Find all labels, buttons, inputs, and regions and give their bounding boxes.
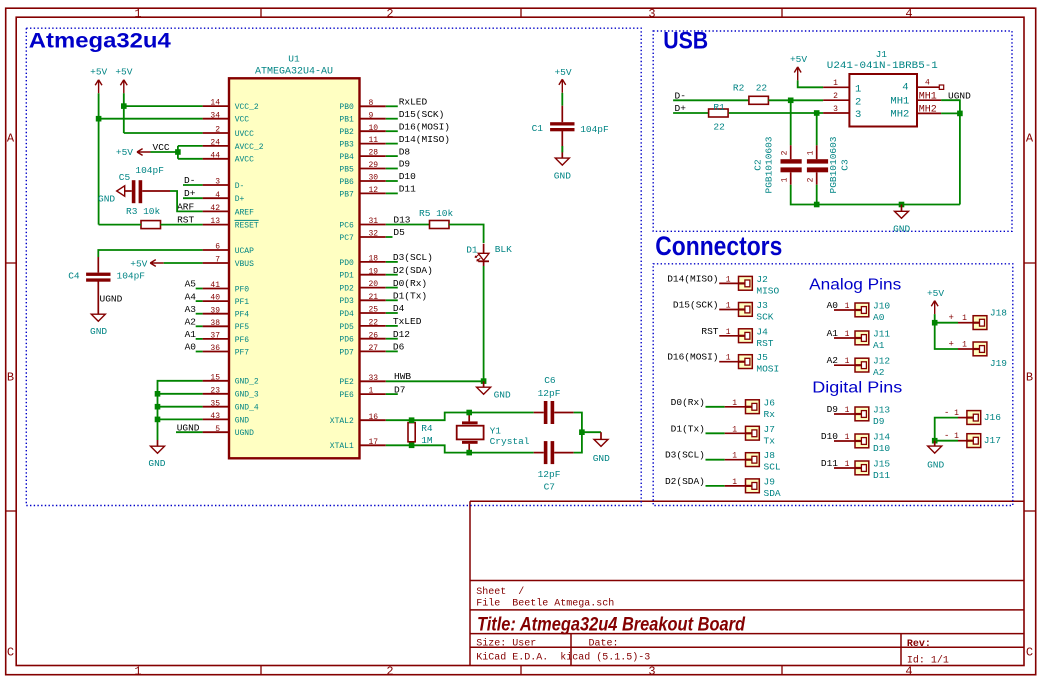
svg-text:23: 23: [210, 386, 220, 395]
svg-text:4: 4: [905, 665, 912, 679]
svg-text:4: 4: [902, 82, 908, 94]
svg-text:11: 11: [369, 136, 379, 145]
svg-text:GND: GND: [893, 223, 910, 234]
USB section dashed box: [653, 31, 1012, 231]
svg-text:-: -: [944, 431, 949, 441]
svg-text:A2: A2: [873, 367, 885, 378]
junction: [175, 149, 181, 155]
svg-text:GND_2: GND_2: [235, 378, 259, 387]
svg-text:GND: GND: [494, 390, 511, 401]
svg-text:3: 3: [833, 105, 838, 114]
U1 pin 40 (PF1) left stub: [203, 300, 229, 302]
wire: [816, 113, 818, 145]
wire: [386, 105, 398, 107]
svg-text:Date:: Date:: [589, 639, 619, 650]
svg-text:PB2: PB2: [339, 128, 354, 137]
svg-text:+: +: [949, 313, 954, 323]
svg-text:R1: R1: [713, 102, 725, 113]
wire: [725, 485, 746, 487]
wire: [183, 197, 203, 199]
resistor R3: [141, 221, 161, 229]
svg-text:A1: A1: [185, 329, 197, 340]
resistor R1: [709, 109, 729, 117]
svg-text:B: B: [7, 371, 14, 385]
svg-text:Title: Atmega32u4 Breakout Boa: Title: Atmega32u4 Breakout Board: [477, 615, 745, 636]
svg-text:D8: D8: [399, 146, 411, 157]
connector J8: [746, 453, 760, 467]
wire: [99, 118, 203, 120]
svg-text:1: 1: [732, 425, 737, 434]
svg-text:A5: A5: [185, 279, 197, 290]
wire: [386, 445, 534, 452]
svg-text:GND: GND: [90, 326, 107, 337]
wire: [196, 288, 203, 290]
svg-text:5: 5: [215, 425, 220, 434]
wire: [158, 418, 203, 420]
wire: [791, 185, 960, 205]
svg-text:B: B: [1026, 371, 1033, 385]
resistor R5: [430, 221, 450, 229]
wire: [798, 80, 823, 87]
svg-text:MH2: MH2: [919, 104, 937, 115]
wire: [178, 145, 203, 147]
wire: [725, 432, 746, 434]
svg-text:D1(Tx): D1(Tx): [671, 423, 705, 434]
svg-text:VCC: VCC: [235, 116, 250, 125]
wire: [151, 151, 178, 153]
svg-text:RESET: RESET: [235, 222, 259, 231]
J1 pin 1 stub: [823, 86, 849, 88]
wire: [958, 322, 973, 324]
connector J4: [739, 329, 753, 343]
frame column tick bottom 3|4: [781, 666, 783, 675]
svg-text:GND: GND: [554, 171, 571, 182]
svg-text:22: 22: [713, 121, 725, 132]
wire: [706, 485, 725, 487]
svg-text:D14(MISO): D14(MISO): [399, 134, 450, 145]
U1 pin 5 (UGND) left stub: [203, 431, 229, 433]
svg-text:GND_3: GND_3: [235, 391, 259, 400]
svg-text:PGB1010603: PGB1010603: [764, 136, 775, 193]
svg-text:D2(SDA): D2(SDA): [665, 476, 705, 487]
U1 pin 14 (VCC_2) left stub: [203, 105, 229, 107]
wire: [935, 322, 958, 324]
U1 pin 18 (PD0) right stub: [360, 261, 386, 263]
crystal Y1: [468, 413, 470, 422]
frame column tick bottom 1|2: [260, 666, 262, 675]
U1 pin 9 (PB1) right stub: [360, 118, 386, 120]
connector J16: [967, 411, 981, 425]
frame column tick top 3|4: [781, 8, 783, 17]
svg-text:R4: R4: [421, 423, 433, 434]
connector J3: [739, 303, 753, 317]
svg-text:PB7: PB7: [339, 190, 354, 199]
wire: [706, 406, 725, 408]
svg-text:21: 21: [369, 293, 379, 302]
power +5V symbol (VBUS feed): [150, 260, 164, 267]
svg-text:SCK: SCK: [756, 312, 773, 323]
wire: [729, 112, 823, 114]
U1 pin 29 (PB5) right stub: [360, 168, 386, 170]
svg-text:3: 3: [648, 7, 655, 21]
svg-text:J7: J7: [764, 424, 775, 435]
power +5V symbol (left #1): [95, 80, 102, 94]
J1 pin 2 stub: [823, 99, 849, 101]
svg-text:U1: U1: [288, 54, 300, 65]
svg-text:1: 1: [781, 177, 790, 182]
connector J1 body: [849, 74, 917, 127]
svg-text:+5V: +5V: [90, 67, 107, 78]
U1 pin 32 (PC7) right stub: [360, 236, 386, 238]
svg-text:D15(SCK): D15(SCK): [399, 109, 445, 120]
svg-text:D11: D11: [399, 184, 416, 195]
svg-text:28: 28: [369, 149, 379, 158]
U1 pin 7 (VBUS) left stub: [203, 262, 229, 264]
svg-text:MISO: MISO: [756, 285, 779, 296]
svg-text:R2 22: R2 22: [733, 82, 768, 93]
svg-text:PB3: PB3: [339, 141, 354, 150]
svg-text:D10: D10: [399, 171, 416, 182]
svg-text:GND: GND: [927, 459, 944, 470]
U1 pin 11 (PB3) right stub: [360, 143, 386, 145]
svg-text:D0(Rx): D0(Rx): [671, 397, 705, 408]
connector J15: [855, 461, 869, 475]
svg-text:+5V: +5V: [554, 67, 571, 78]
svg-text:Connectors: Connectors: [655, 231, 782, 261]
svg-text:J15: J15: [873, 459, 890, 470]
wire: [834, 413, 855, 415]
wire: [958, 440, 967, 442]
svg-text:KiCad E.D.A. kicad (5.1.5)-3: KiCad E.D.A. kicad (5.1.5)-3: [476, 651, 650, 663]
power +5V symbol (C1): [559, 79, 566, 93]
svg-text:4: 4: [925, 79, 930, 88]
ground GND symbol (crystal): [600, 432, 602, 439]
svg-text:39: 39: [210, 306, 220, 315]
svg-text:D10: D10: [873, 443, 890, 454]
wire: [719, 282, 738, 284]
svg-text:UGND: UGND: [100, 294, 123, 305]
connector J12: [855, 358, 869, 372]
resistor R2: [749, 96, 769, 104]
svg-text:12pF: 12pF: [538, 469, 561, 480]
power +5V symbol (left #2): [120, 80, 127, 94]
svg-text:+5V: +5V: [790, 54, 807, 65]
frame column tick bottom 2|3: [520, 666, 522, 675]
U1 pin 17 (XTAL1) right stub: [360, 444, 386, 446]
svg-text:D16(MOSI): D16(MOSI): [399, 121, 450, 132]
junction: [409, 417, 415, 423]
svg-text:25: 25: [369, 306, 379, 315]
U1 pin 39 (PF4) left stub: [203, 313, 229, 315]
svg-text:PB5: PB5: [339, 165, 354, 174]
U1 pin 42 (AREF) left stub: [203, 210, 229, 212]
svg-text:AVCC_2: AVCC_2: [235, 143, 264, 152]
wire: [386, 325, 398, 327]
svg-text:GND: GND: [593, 453, 610, 464]
svg-text:41: 41: [210, 281, 220, 290]
svg-text:J9: J9: [764, 476, 776, 487]
svg-text:29: 29: [369, 161, 379, 170]
U1 pin 3 (D-) left stub: [203, 184, 229, 186]
svg-text:D3(SCL): D3(SCL): [665, 450, 705, 461]
U1 pin 28 (PB4) right stub: [360, 155, 386, 157]
svg-text:ATMEGA32U4-AU: ATMEGA32U4-AU: [255, 66, 333, 77]
svg-text:PB1: PB1: [339, 116, 354, 125]
svg-text:20: 20: [369, 280, 379, 289]
connector J2: [739, 276, 753, 290]
wire: [790, 100, 792, 145]
svg-text:BLK: BLK: [495, 244, 512, 255]
svg-text:38: 38: [210, 319, 220, 328]
svg-text:31: 31: [369, 217, 379, 226]
ground GND symbol (HWB LED): [483, 381, 485, 387]
svg-text:XTAL2: XTAL2: [330, 417, 354, 426]
U1 pin 1 (PE6) right stub: [360, 393, 386, 395]
svg-text:43: 43: [210, 412, 220, 421]
svg-text:J5: J5: [756, 352, 768, 363]
svg-text:1: 1: [369, 387, 374, 396]
svg-text:PE2: PE2: [339, 378, 354, 387]
svg-text:PB0: PB0: [339, 103, 354, 112]
svg-text:J19: J19: [990, 358, 1007, 369]
svg-text:C: C: [1026, 646, 1033, 660]
U1 pin 26 (PD6) right stub: [360, 338, 386, 340]
svg-text:PD3: PD3: [339, 297, 354, 306]
wire: [719, 335, 738, 337]
svg-text:HWB: HWB: [394, 371, 411, 382]
svg-text:UGND: UGND: [235, 429, 254, 438]
U1 pin 43 (GND) left stub: [203, 418, 229, 420]
svg-text:AVCC: AVCC: [235, 156, 254, 165]
svg-text:UVCC: UVCC: [235, 130, 254, 139]
junction: [579, 429, 585, 435]
svg-text:J16: J16: [984, 412, 1001, 423]
svg-text:1: 1: [807, 150, 816, 155]
svg-text:J4: J4: [756, 326, 768, 337]
U1 pin 27 (PD7) right stub: [360, 350, 386, 352]
wire: [386, 312, 398, 314]
svg-text:15: 15: [210, 373, 220, 382]
wire: [561, 93, 563, 106]
svg-text:42: 42: [210, 204, 220, 213]
junction: [932, 320, 938, 326]
svg-text:GND: GND: [148, 458, 165, 469]
svg-text:GND: GND: [235, 416, 250, 425]
frame row tick right B|C: [1024, 510, 1036, 512]
svg-text:3: 3: [215, 178, 220, 187]
junction: [155, 404, 161, 410]
svg-text:1: 1: [134, 665, 141, 679]
wire: [386, 413, 534, 421]
svg-text:USB: USB: [663, 28, 708, 55]
svg-text:VCC_2: VCC_2: [235, 103, 259, 112]
svg-text:PD1: PD1: [339, 272, 354, 281]
U1 pin 2 (UVCC) left stub: [203, 132, 229, 134]
U1 pin 37 (PF6) left stub: [203, 338, 229, 340]
capacitor C6: [544, 401, 548, 424]
svg-text:D1: D1: [466, 245, 478, 256]
svg-text:6: 6: [215, 243, 220, 252]
U1 pin 36 (PF7) left stub: [203, 351, 229, 353]
wire: [941, 112, 960, 114]
svg-text:1: 1: [845, 460, 850, 469]
svg-text:1: 1: [732, 399, 737, 408]
svg-text:18: 18: [369, 255, 379, 264]
svg-text:26: 26: [369, 331, 379, 340]
svg-text:1: 1: [845, 302, 850, 311]
svg-text:J8: J8: [764, 450, 776, 461]
wire: [706, 432, 725, 434]
svg-text:TxLED: TxLED: [393, 316, 422, 327]
wire: [124, 132, 203, 134]
wire: [386, 180, 398, 182]
svg-text:4: 4: [905, 7, 912, 21]
U1 pin 25 (PD4) right stub: [360, 312, 386, 314]
junction: [409, 443, 415, 449]
svg-text:1: 1: [855, 84, 861, 96]
junction: [899, 202, 905, 208]
svg-text:34: 34: [210, 111, 220, 120]
svg-text:30: 30: [369, 174, 379, 183]
svg-text:MOSI: MOSI: [756, 364, 779, 375]
svg-text:A0: A0: [873, 312, 885, 323]
wire: [386, 224, 430, 226]
svg-text:36: 36: [210, 344, 220, 353]
U1 pin 30 (PB6) right stub: [360, 180, 386, 182]
svg-text:A4: A4: [185, 291, 197, 302]
svg-text:PF0: PF0: [235, 285, 250, 294]
svg-text:14: 14: [210, 99, 220, 108]
svg-text:7: 7: [215, 256, 220, 265]
svg-text:1: 1: [726, 302, 731, 311]
svg-text:Crystal: Crystal: [490, 436, 530, 447]
U1 pin 44 (AVCC) left stub: [203, 158, 229, 160]
svg-text:2: 2: [807, 177, 816, 182]
junction: [466, 450, 472, 456]
junction: [788, 98, 794, 104]
svg-text:J3: J3: [756, 300, 768, 311]
wire: [386, 287, 398, 289]
svg-text:27: 27: [369, 344, 379, 353]
wire: [386, 143, 398, 145]
U1 pin 13 (RESET) left stub: [203, 224, 229, 226]
wire: [673, 112, 709, 114]
svg-text:33: 33: [369, 374, 379, 383]
U1 pin 21 (PD3) right stub: [360, 299, 386, 301]
svg-text:2: 2: [781, 150, 790, 155]
wire: [816, 185, 818, 205]
svg-text:17: 17: [369, 438, 379, 447]
svg-text:24: 24: [210, 139, 220, 148]
U1 pin 31 (PC6) right stub: [360, 224, 386, 226]
capacitor C5: [132, 180, 136, 203]
connector J19: [973, 342, 987, 356]
U1 pin 35 (GND_4) left stub: [203, 406, 229, 408]
C4 lower lead: [97, 282, 99, 315]
wire: [386, 393, 398, 395]
wire: [483, 266, 485, 381]
svg-text:1: 1: [845, 406, 850, 415]
wire: [123, 93, 125, 133]
connector J5: [739, 355, 753, 369]
wire: [196, 300, 203, 302]
wire: [386, 168, 398, 170]
wire: [706, 459, 725, 461]
svg-text:1: 1: [732, 452, 737, 461]
U1 pin 22 (PD5) right stub: [360, 325, 386, 327]
connector J11: [855, 331, 869, 345]
frame row tick left A|B: [6, 262, 17, 264]
svg-text:+5V: +5V: [130, 258, 147, 269]
svg-text:C3: C3: [840, 159, 851, 171]
svg-text:D1(Tx): D1(Tx): [393, 291, 427, 302]
svg-text:D5: D5: [393, 227, 405, 238]
wire: [196, 351, 203, 353]
wire: [561, 146, 563, 152]
power +5V symbol (VCC feed): [137, 149, 151, 156]
op-amp U1 body ATMEGA32U4-AU: [229, 78, 360, 458]
svg-text:D9: D9: [399, 159, 411, 170]
svg-text:D3(SCL): D3(SCL): [393, 252, 433, 263]
wire: [158, 406, 203, 408]
frame row tick right A|B: [1024, 262, 1036, 264]
wire: [386, 338, 398, 340]
connector J18: [973, 316, 987, 330]
svg-text:1: 1: [134, 7, 141, 21]
wire: [725, 406, 746, 408]
title block outline: [470, 501, 1024, 665]
svg-text:40: 40: [210, 294, 220, 303]
svg-text:+5V: +5V: [116, 147, 133, 158]
svg-text:C4: C4: [68, 271, 80, 282]
wire: [834, 364, 855, 366]
wire: [386, 274, 398, 276]
diode D1 LED: [483, 244, 485, 254]
svg-text:D11: D11: [873, 470, 890, 481]
svg-text:D9: D9: [873, 416, 885, 427]
svg-text:Rev:: Rev:: [907, 639, 931, 650]
svg-text:GND: GND: [98, 194, 115, 205]
svg-text:J10: J10: [873, 301, 890, 312]
junction: [155, 391, 161, 397]
svg-text:PF6: PF6: [235, 336, 250, 345]
junction: [814, 202, 820, 208]
svg-text:19: 19: [369, 267, 379, 276]
ground GND symbol (C1): [561, 152, 563, 158]
connector J7: [746, 426, 760, 440]
svg-text:A0: A0: [185, 342, 197, 353]
capacitor C1: [550, 122, 574, 125]
C4 lead: [97, 257, 99, 273]
svg-text:PE6: PE6: [339, 391, 354, 400]
wire: [124, 105, 203, 107]
svg-text:+5V: +5V: [927, 288, 944, 299]
svg-text:+: +: [949, 340, 954, 350]
svg-text:D16(MOSI): D16(MOSI): [667, 352, 718, 363]
wire: [574, 413, 582, 453]
svg-text:2: 2: [386, 7, 393, 21]
svg-text:2: 2: [215, 126, 220, 135]
svg-text:C6: C6: [544, 375, 556, 386]
svg-text:PC6: PC6: [339, 221, 354, 230]
junction: [466, 410, 472, 416]
ground GND symbol (C4): [91, 314, 105, 321]
svg-text:8: 8: [369, 99, 374, 108]
svg-text:10: 10: [369, 124, 379, 133]
svg-text:13: 13: [210, 217, 220, 226]
power +5V symbol (USB): [794, 67, 801, 81]
ground GND symbol (C5): [117, 186, 125, 196]
